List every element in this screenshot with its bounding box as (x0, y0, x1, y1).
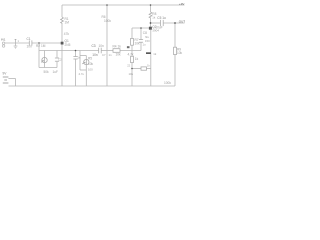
svg-text:+9V: +9V (179, 2, 184, 6)
svg-text:C8: C8 (143, 31, 147, 35)
svg-text:C2: C2 (58, 57, 62, 61)
svg-text:1n: 1n (77, 55, 81, 59)
svg-text:100k: 100k (164, 81, 171, 85)
svg-text:R5: R5 (88, 57, 92, 61)
svg-text:100: 100 (88, 68, 93, 72)
svg-text:10n: 10n (99, 44, 105, 48)
svg-text:1M: 1M (65, 20, 70, 24)
svg-text:10uF: 10uF (155, 25, 162, 29)
svg-text:10u: 10u (129, 72, 134, 76)
svg-text:10k: 10k (135, 42, 141, 46)
svg-text:100k: 100k (104, 19, 111, 23)
svg-text:OUT: OUT (179, 19, 185, 23)
svg-text:10k: 10k (88, 62, 94, 66)
svg-text:150: 150 (145, 39, 150, 43)
svg-text:R4 1k: R4 1k (113, 44, 122, 48)
svg-text:10k: 10k (177, 51, 183, 55)
svg-text:1uF: 1uF (53, 70, 59, 74)
svg-text:50k: 50k (44, 70, 50, 74)
svg-text:4.7k: 4.7k (128, 52, 134, 56)
svg-text:1n: 1n (109, 53, 113, 57)
svg-text:C7: C7 (102, 53, 106, 57)
svg-text:4.7u: 4.7u (79, 72, 85, 76)
svg-text:10n: 10n (92, 53, 98, 57)
svg-text:C3: C3 (92, 44, 96, 48)
svg-text:R2 1M: R2 1M (36, 44, 46, 48)
svg-text:1k: 1k (135, 57, 139, 61)
svg-text:47k: 47k (64, 32, 70, 36)
svg-text:10k: 10k (116, 53, 122, 57)
svg-text:IN1: IN1 (1, 38, 6, 42)
svg-text:10n: 10n (27, 44, 33, 48)
svg-text:2N5: 2N5 (65, 43, 71, 47)
svg-text:C5 1u: C5 1u (157, 16, 166, 20)
svg-text:C1: C1 (27, 37, 31, 41)
